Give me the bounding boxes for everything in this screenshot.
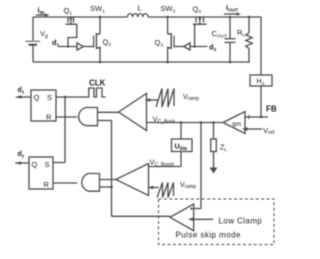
svg-text:Q2: Q2 <box>103 38 112 49</box>
svg-text:Vg: Vg <box>40 29 48 40</box>
svg-text:R: R <box>46 113 52 122</box>
svg-text:Q3: Q3 <box>155 38 164 49</box>
svg-text:SW1: SW1 <box>90 4 105 15</box>
svg-text:gm: gm <box>232 121 241 128</box>
svg-text:Low Clamp: Low Clamp <box>219 217 263 226</box>
svg-text:iIN: iIN <box>38 6 45 17</box>
svg-text:d2: d2 <box>18 151 25 159</box>
svg-text:iOUT: iOUT <box>226 3 238 14</box>
svg-text:L: L <box>138 4 142 13</box>
svg-text:Pulse skip mode: Pulse skip mode <box>176 231 242 240</box>
svg-text:S: S <box>47 93 52 102</box>
svg-text:d1: d1 <box>52 38 60 49</box>
svg-text:COUT: COUT <box>212 29 228 40</box>
svg-text:Q: Q <box>32 160 38 169</box>
svg-text:CLK: CLK <box>89 79 106 88</box>
svg-text:d2: d2 <box>209 43 217 54</box>
svg-text:Vramp: Vramp <box>180 182 196 190</box>
svg-text:Q: Q <box>34 93 40 102</box>
svg-text:Vref: Vref <box>263 126 275 136</box>
svg-text:Ubia: Ubia <box>175 144 188 152</box>
svg-text:VC_Buck: VC_Buck <box>153 115 176 125</box>
svg-text:RL: RL <box>237 28 245 39</box>
svg-text:Q1: Q1 <box>64 6 73 17</box>
svg-text:d1: d1 <box>18 87 25 95</box>
svg-text:S: S <box>45 160 50 169</box>
svg-text:Vramp: Vramp <box>183 94 199 102</box>
svg-text:ZL: ZL <box>220 145 227 153</box>
svg-text:FB: FB <box>266 105 277 114</box>
svg-text:VC_Boost: VC_Boost <box>150 158 175 168</box>
svg-text:SW2: SW2 <box>161 4 176 15</box>
svg-text:R: R <box>44 180 50 189</box>
svg-text:Q4: Q4 <box>193 5 202 16</box>
